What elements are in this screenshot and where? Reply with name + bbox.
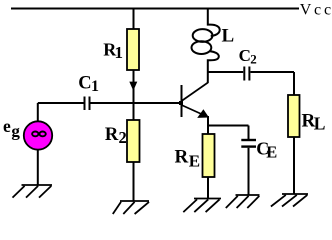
svg-text:g: g <box>11 122 20 141</box>
svg-text:1: 1 <box>115 43 124 62</box>
svg-text:Vcc: Vcc <box>300 2 332 19</box>
svg-text:E: E <box>189 152 200 171</box>
svg-text:2: 2 <box>119 128 127 147</box>
svg-text:L: L <box>314 114 326 134</box>
svg-text:R: R <box>105 125 119 145</box>
svg-text:C: C <box>78 74 91 94</box>
svg-text:E: E <box>266 143 277 162</box>
svg-text:e: e <box>3 116 11 136</box>
svg-text:1: 1 <box>91 78 99 95</box>
svg-text:C: C <box>239 46 251 65</box>
svg-text:R: R <box>175 147 189 168</box>
svg-text:2: 2 <box>250 51 256 66</box>
svg-text:L: L <box>222 26 235 47</box>
